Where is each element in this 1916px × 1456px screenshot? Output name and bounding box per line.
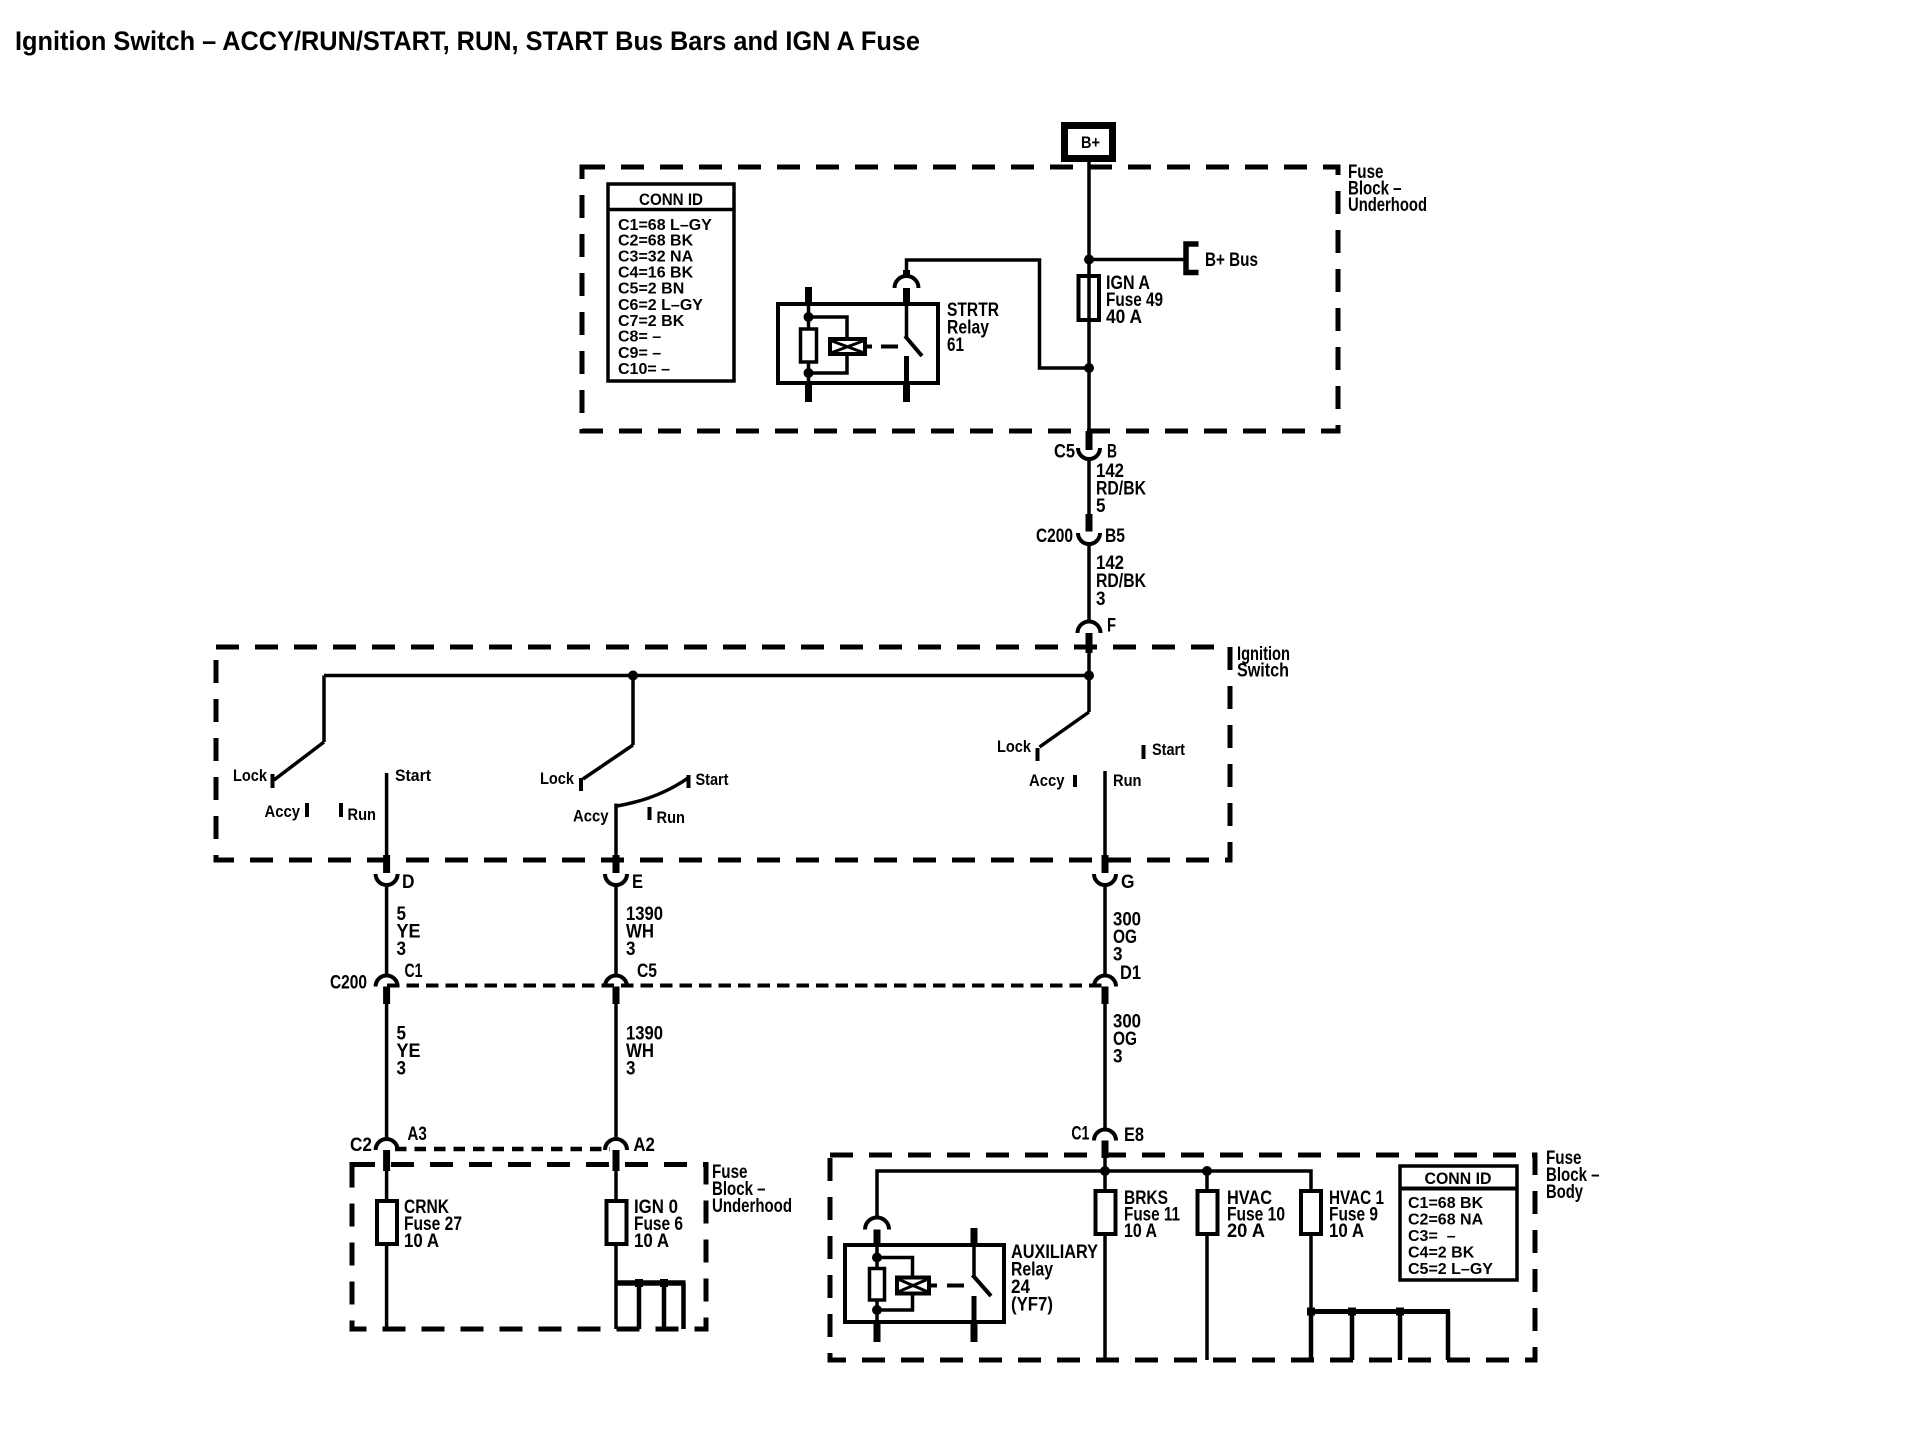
fuse IGN A Fuse 49 40A xyxy=(1079,273,1164,328)
B+ Bus terminal bracket xyxy=(1186,244,1199,273)
svg-text:Lock: Lock xyxy=(233,766,267,785)
wire: STRTR relay output to main wire xyxy=(907,260,1090,368)
svg-text:Lock: Lock xyxy=(997,737,1031,756)
connector E xyxy=(605,855,643,893)
svg-text:C10= –: C10= – xyxy=(618,361,670,378)
switch blade xyxy=(905,336,922,356)
label: Ignition Switch xyxy=(1237,644,1290,682)
connector G xyxy=(1094,855,1135,893)
svg-text:Body: Body xyxy=(1546,1182,1583,1203)
conn id table (body) xyxy=(1400,1166,1517,1280)
wire label 1390 WH 3 (lower) xyxy=(626,1024,663,1080)
Accy contact tick xyxy=(305,803,309,817)
svg-text:Underhood: Underhood xyxy=(1348,195,1427,216)
svg-text:C1: C1 xyxy=(1071,1124,1089,1145)
switch pole 1 (ACCY/RUN/START bus) xyxy=(233,676,431,856)
svg-text:Ignition Switch – ACCY/RUN/STA: Ignition Switch – ACCY/RUN/START, RUN, S… xyxy=(15,26,920,56)
svg-text:C4=16 BK: C4=16 BK xyxy=(618,264,694,281)
fuse IGN 0 Fuse 6 10A xyxy=(607,1171,684,1329)
svg-text:D: D xyxy=(402,872,415,893)
pin stub top-right with connector dome xyxy=(903,288,910,305)
svg-text:61: 61 xyxy=(947,335,964,356)
wire D to C200/C1 xyxy=(385,885,389,976)
svg-text:3: 3 xyxy=(397,939,407,960)
svg-text:C200: C200 xyxy=(1036,526,1073,547)
svg-text:CONN ID: CONN ID xyxy=(1425,1169,1492,1188)
svg-text:Run: Run xyxy=(348,805,377,824)
switch contact upper xyxy=(905,304,909,337)
pin stub bottom-left xyxy=(805,382,812,402)
actuator dashed link xyxy=(867,345,872,349)
svg-text:10 A: 10 A xyxy=(404,1231,439,1252)
svg-text:C5=2 L–GY: C5=2 L–GY xyxy=(1408,1261,1493,1278)
wire label 142 RD/BK 5 xyxy=(1096,461,1146,517)
svg-text:40 A: 40 A xyxy=(1106,307,1142,328)
fuse HVAC Fuse 10 20A xyxy=(1198,1171,1286,1360)
switch contact lower xyxy=(904,356,909,383)
svg-text:B+: B+ xyxy=(1081,133,1100,152)
connector row C200 (C1/C5/D1) xyxy=(330,961,1141,1004)
connector D xyxy=(376,855,415,893)
relay STRTR Relay 61 xyxy=(778,270,999,402)
svg-text:3: 3 xyxy=(397,1059,407,1080)
B+ power feed box xyxy=(1065,126,1113,159)
svg-text:Run: Run xyxy=(1113,771,1142,790)
svg-text:CONN ID: CONN ID xyxy=(639,190,703,209)
node: HVAC junction xyxy=(1202,1166,1212,1176)
svg-text:C200: C200 xyxy=(330,973,367,994)
Start contact wire xyxy=(385,773,389,855)
svg-text:G: G xyxy=(1121,872,1135,893)
wire: F to switch bus xyxy=(1087,653,1091,676)
fuse HVAC 1 Fuse 9 10A xyxy=(1301,1188,1384,1309)
svg-text:Start: Start xyxy=(395,766,431,785)
svg-text:C2=68 BK: C2=68 BK xyxy=(618,233,694,250)
svg-text:3: 3 xyxy=(626,939,636,960)
fuse block underhood (bottom) dashed box xyxy=(352,1165,706,1330)
svg-text:C1: C1 xyxy=(405,961,423,982)
svg-text:B5: B5 xyxy=(1105,526,1125,547)
svg-text:Run: Run xyxy=(657,808,686,827)
svg-text:C5: C5 xyxy=(1054,442,1075,463)
fuse CRNK Fuse 27 10A xyxy=(377,1171,462,1329)
svg-text:C7=2 BK: C7=2 BK xyxy=(618,313,685,330)
Lock contact tick xyxy=(271,774,275,788)
svg-text:C5: C5 xyxy=(637,961,657,982)
svg-text:5: 5 xyxy=(1096,496,1106,517)
svg-text:3: 3 xyxy=(1096,589,1106,610)
pin stub top-left xyxy=(805,287,812,305)
wire 142 RD/BK 5 xyxy=(1087,459,1091,516)
svg-text:20 A: 20 A xyxy=(1227,1221,1265,1242)
pin stub bottom-right xyxy=(903,382,910,402)
wire: branch to B+ Bus xyxy=(1089,258,1184,262)
connector row C2 (A3/A2) xyxy=(350,1124,655,1171)
node: right switch junction xyxy=(1084,671,1094,681)
svg-text:3: 3 xyxy=(626,1059,636,1080)
svg-text:Underhood: Underhood xyxy=(712,1196,792,1217)
conn id table (underhood) xyxy=(608,184,734,381)
wire G to D1 xyxy=(1103,885,1107,976)
connector C5/B xyxy=(1054,431,1117,463)
svg-text:(YF7): (YF7) xyxy=(1011,1295,1053,1316)
svg-text:B+ Bus: B+ Bus xyxy=(1205,250,1258,271)
svg-text:E: E xyxy=(632,872,643,893)
connector C1/E8 xyxy=(1071,1124,1144,1159)
svg-text:C6=2 L–GY: C6=2 L–GY xyxy=(618,297,703,314)
svg-text:Accy: Accy xyxy=(265,802,301,821)
svg-text:10 A: 10 A xyxy=(1329,1221,1364,1242)
node: BRKS junction xyxy=(1100,1166,1110,1176)
svg-text:C4=2 BK: C4=2 BK xyxy=(1408,1245,1475,1262)
switch pole 3 xyxy=(997,676,1185,856)
svg-text:E8: E8 xyxy=(1124,1125,1144,1146)
wire E to C200/C5 xyxy=(614,885,618,976)
switch pole 2 xyxy=(540,676,729,856)
svg-text:3: 3 xyxy=(1113,1047,1123,1068)
start arc blade xyxy=(617,778,688,806)
svg-text:Accy: Accy xyxy=(1029,771,1065,790)
node: junction below IGN A fuse xyxy=(1084,363,1094,373)
svg-text:A3: A3 xyxy=(407,1124,427,1145)
ignition switch dashed box xyxy=(216,647,1230,860)
svg-text:C2=68 NA: C2=68 NA xyxy=(1408,1212,1484,1229)
connector F into ignition switch xyxy=(1078,616,1117,654)
svg-text:C1=68 BK: C1=68 BK xyxy=(1408,1195,1484,1212)
wire label 142 RD/BK 3 xyxy=(1096,553,1146,610)
node: middle switch junction xyxy=(628,671,638,681)
svg-text:10 A: 10 A xyxy=(634,1231,669,1252)
svg-text:Start: Start xyxy=(696,770,729,789)
wire: B+ down to C5 connector xyxy=(1087,162,1091,436)
svg-text:Lock: Lock xyxy=(540,769,574,788)
wire label 1390 WH 3 (upper) xyxy=(626,904,663,960)
wire: E8 into body distribution xyxy=(1103,1157,1107,1172)
label: Fuse Block - Underhood (bottom) xyxy=(712,1162,792,1217)
connector C200/B5 xyxy=(1036,514,1125,547)
Run contact tick xyxy=(339,803,343,817)
coil branch wires xyxy=(809,317,848,339)
svg-text:C3= –: C3= – xyxy=(1408,1228,1456,1245)
svg-text:C3=32 NA: C3=32 NA xyxy=(618,249,694,266)
fuse block body dashed box xyxy=(830,1155,1535,1360)
bus bar (body) xyxy=(1307,1308,1450,1361)
svg-text:F: F xyxy=(1107,616,1116,637)
label: Fuse Block - Underhood (top) xyxy=(1348,162,1427,216)
wire 142 RD/BK 3 xyxy=(1087,544,1091,623)
svg-text:C8= –: C8= – xyxy=(618,329,661,346)
svg-text:Start: Start xyxy=(1152,740,1185,759)
svg-text:C1=68 L–GY: C1=68 L–GY xyxy=(618,217,712,234)
svg-text:C5=2 BN: C5=2 BN xyxy=(618,280,684,297)
fuse BRKS Fuse 11 10A xyxy=(1096,1171,1181,1360)
coil feed wire left xyxy=(807,304,811,330)
svg-text:10 A: 10 A xyxy=(1124,1221,1157,1242)
wire: body distribution bus xyxy=(877,1171,1311,1218)
wire label 5 YE 3 (lower) xyxy=(397,1024,421,1080)
wire segments below C200 xyxy=(385,1004,389,1140)
svg-text:Switch: Switch xyxy=(1237,661,1289,682)
relay AUXILIARY Relay 24 (YF7) xyxy=(845,1218,1098,1343)
wire label 5 YE 3 (upper) xyxy=(397,904,421,960)
svg-text:A2: A2 xyxy=(633,1135,655,1156)
svg-text:D1: D1 xyxy=(1120,963,1141,984)
resistor inside relay xyxy=(801,329,817,362)
svg-text:C9= –: C9= – xyxy=(618,345,661,362)
bus bar (underhood) xyxy=(617,1279,686,1329)
svg-text:Accy: Accy xyxy=(573,807,609,826)
wire label 300 OG 3 (lower) xyxy=(1113,1012,1141,1068)
coil symbol xyxy=(830,339,865,354)
label: Fuse Block - Body xyxy=(1546,1148,1600,1203)
wire: ignition switch bus xyxy=(324,674,1089,678)
svg-text:C2: C2 xyxy=(350,1135,372,1156)
wire label 300 OG 3 (upper) xyxy=(1113,910,1141,966)
node: B+ bus junction xyxy=(1084,255,1094,265)
label: STRTR Relay 61 xyxy=(947,300,999,356)
svg-text:B: B xyxy=(1107,442,1117,463)
fuse block underhood (top) dashed box xyxy=(582,167,1338,431)
